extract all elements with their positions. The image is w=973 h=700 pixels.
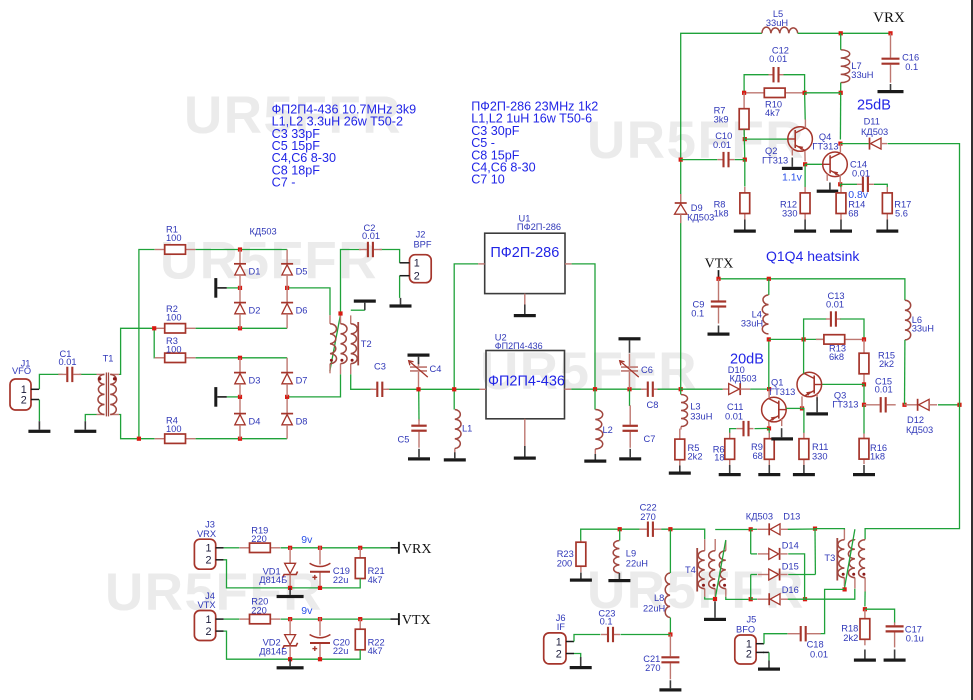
svg-text:КД503: КД503 (746, 512, 773, 522)
svg-text:9v: 9v (301, 534, 313, 546)
svg-text:22u: 22u (333, 575, 349, 585)
svg-text:R23: R23 (557, 549, 574, 559)
junction R4/D4 bottom (238, 437, 242, 441)
page edge line (971, 0, 973, 700)
wire C3 to C4 node (387, 388, 455, 390)
svg-text:ПФ2П-286: ПФ2П-286 (490, 245, 559, 261)
junction R3/D3 top (238, 356, 242, 360)
transistor Q2 (788, 127, 813, 152)
resistor R23 (580, 540, 582, 542)
svg-text:0.01: 0.01 (725, 412, 743, 422)
output tick VRX (398, 542, 400, 554)
svg-text:КД503: КД503 (687, 213, 714, 223)
transformer T4 (696, 548, 698, 592)
svg-text:ГТ313: ГТ313 (769, 387, 795, 397)
wire D13 node to T3 winding1 top (815, 528, 844, 531)
junction VRX/C16 (888, 31, 892, 35)
ground R11 (803, 465, 805, 473)
wire D14 right lead (788, 554, 804, 599)
ground U1 (524, 305, 526, 315)
svg-text:Д814Б: Д814Б (259, 646, 287, 656)
svg-text:100: 100 (166, 344, 182, 354)
junction D13 right (813, 527, 817, 531)
svg-text:D13: D13 (783, 512, 800, 522)
connector J2 BPF (410, 255, 432, 283)
junction R10 right (803, 91, 807, 95)
wire R20 to 9v node (281, 618, 391, 620)
junction VD1 bottom (288, 586, 292, 590)
junction T3 out / R18 (863, 607, 867, 611)
resistor R14 (840, 187, 842, 193)
svg-text:100: 100 (166, 313, 182, 323)
wire J3 pin1 to R19 (224, 547, 240, 549)
transistor Q4 (823, 152, 848, 177)
svg-text:33uH: 33uH (851, 70, 873, 80)
capacitor C18 (788, 633, 800, 635)
wire D13-D14 left link (750, 529, 752, 554)
junction R21 top (358, 546, 362, 550)
svg-text:1: 1 (205, 543, 211, 555)
wire L8 top lead (669, 529, 671, 573)
wire L6 to D12 node (904, 340, 906, 405)
wire node to R11 (802, 408, 804, 433)
svg-text:ГТ313: ГТ313 (812, 142, 838, 152)
ground C9 (718, 326, 720, 333)
svg-text:J2: J2 (416, 230, 426, 240)
junction R13 left node (802, 337, 806, 341)
junction VD2 bottom (288, 657, 292, 661)
svg-text:1: 1 (205, 614, 211, 626)
wire rail lower (865, 405, 959, 539)
junction C20 bottom (318, 657, 322, 661)
transistor Q3 (797, 372, 822, 397)
inductor L3 (680, 427, 682, 430)
svg-text:КД503: КД503 (250, 226, 277, 236)
svg-text:2: 2 (746, 649, 752, 661)
svg-text:0.01: 0.01 (826, 300, 844, 310)
svg-text:ГТ313: ГТ313 (762, 156, 788, 166)
svg-text:1: 1 (414, 258, 420, 270)
diode D16 (757, 598, 769, 600)
wire D11 to rail (888, 144, 960, 405)
wire node to L1 (453, 389, 455, 409)
svg-text:0.1u: 0.1u (906, 634, 924, 644)
diode D1 (239, 250, 241, 264)
capacitor C16 (890, 33, 892, 57)
svg-text:4k7: 4k7 (368, 646, 383, 656)
capacitor C14 (857, 183, 862, 185)
svg-text:VTX: VTX (402, 613, 431, 628)
junction R2/D2 bottom (238, 326, 242, 330)
ground R9 (768, 465, 770, 473)
junction L9 top (618, 527, 622, 531)
wire L7 to Q4 collector node (839, 93, 841, 140)
svg-text:270: 270 (640, 512, 656, 522)
zener diode VD1 (289, 547, 291, 563)
wire Q3 collector up (803, 339, 805, 373)
inductor L7 (841, 50, 850, 83)
resistor R22 (359, 619, 361, 629)
junction D5/D6 mid (285, 286, 289, 290)
wire L5 to VRX (798, 32, 891, 34)
wire T3 diagonal link (845, 529, 855, 587)
svg-text:C8: C8 (647, 400, 659, 410)
junction Q2 emitter node (803, 162, 807, 166)
wire T2 diagonal link (330, 315, 341, 372)
svg-text:D9: D9 (691, 203, 703, 213)
diode D9 (680, 194, 682, 203)
svg-text:2k2: 2k2 (879, 359, 894, 369)
capacitor C15 (864, 404, 880, 406)
ground Q2 case (791, 158, 793, 167)
filter block U1 fill (485, 233, 565, 293)
svg-text:ГТ313: ГТ313 (832, 400, 858, 410)
resistor R5 (679, 429, 681, 440)
svg-text:100: 100 (166, 233, 182, 243)
junction Q3 base node (862, 382, 866, 386)
junction D13 left (749, 527, 753, 531)
wire R3 to D3/D7 top row (196, 357, 288, 359)
wire node to R14 (839, 184, 842, 187)
svg-text:330: 330 (812, 452, 828, 462)
svg-text:UR5FFR: UR5FFR (160, 232, 378, 291)
ground Q1 case (781, 428, 783, 437)
svg-text:КД503: КД503 (906, 425, 933, 435)
svg-text:33uH: 33uH (690, 412, 712, 422)
wire T2 winding3 top to ground (351, 309, 365, 311)
connector J3 VRX (194, 539, 215, 569)
ground R6 (729, 465, 731, 473)
resistor R8 (744, 187, 746, 193)
svg-text:T2: T2 (361, 339, 372, 349)
capacitor C17 (894, 622, 896, 625)
junction D1/D2 mid (238, 286, 242, 290)
junction R4 left node (137, 437, 141, 441)
wire Q2 emitter to node (804, 151, 806, 162)
junction L8/C23/C21 (668, 632, 672, 636)
svg-text:D16: D16 (782, 585, 799, 595)
resistor R17 (886, 187, 888, 193)
ground L1 (454, 452, 456, 458)
output tick VTX (398, 613, 400, 625)
junction L3 node (679, 387, 683, 391)
svg-text:2: 2 (21, 394, 27, 406)
svg-text:2: 2 (556, 648, 562, 660)
ground Q4 case (829, 183, 831, 190)
ground J2 pin2 (400, 298, 402, 305)
svg-text:D11: D11 (864, 117, 880, 127)
junction C19 bottom (318, 586, 322, 590)
ground C21 (669, 680, 671, 688)
svg-text:22uH: 22uH (626, 559, 648, 569)
wire J4 pin2 rail (224, 631, 361, 659)
transistor Q1 (762, 397, 787, 422)
wire C14 to R17 (874, 184, 887, 187)
connector J5 BFO (735, 635, 756, 664)
wire J5 pin1 to C18 (764, 634, 788, 644)
resistor R19 (240, 547, 250, 549)
svg-text:1k8: 1k8 (870, 452, 885, 462)
wire C13 right loop (840, 319, 864, 339)
wire J2 pin2 to ground (399, 276, 401, 298)
junction R10 left (742, 91, 746, 95)
wire C2 to J2 pin1 (380, 250, 400, 263)
wire D13 left stub (751, 528, 757, 530)
VTX tick (718, 270, 720, 277)
wire D12 to rail (938, 404, 960, 406)
svg-text:D3: D3 (249, 375, 261, 385)
ground J5 pin2 (768, 661, 770, 668)
svg-text:D4: D4 (249, 416, 261, 426)
wire J1 pin2 to ground (38, 400, 40, 422)
wire C12 right loop (784, 75, 805, 93)
transformer T2 (329, 315, 331, 324)
wire C12 left loop (744, 75, 768, 93)
junction Q4 collector/D11 (838, 142, 842, 146)
wire R10 to L7 bottom (805, 92, 841, 94)
junction D3/D4 mid (238, 395, 242, 399)
resistor R21 (359, 548, 361, 558)
svg-text:0.01: 0.01 (713, 140, 731, 150)
junction C10 tap (679, 158, 683, 162)
wire T4 winding1 bottom (705, 597, 715, 599)
capacitor C13 (826, 318, 830, 320)
junction Q2 base (743, 137, 747, 141)
wire J5 pin2 to ground (768, 652, 770, 660)
svg-text:2: 2 (205, 555, 211, 567)
junction C15/R16 node (862, 403, 866, 407)
junction Q4 emitter node (838, 182, 842, 186)
svg-text:0.01: 0.01 (769, 54, 787, 64)
svg-text:T1: T1 (103, 353, 114, 363)
svg-text:Q4: Q4 (819, 132, 831, 142)
diode D15 (758, 574, 769, 576)
svg-text:C6: C6 (641, 365, 653, 375)
wire C1 to T1 primary (79, 373, 96, 375)
junction C4 bottom node (416, 387, 420, 391)
svg-text:6k8: 6k8 (829, 352, 844, 362)
junction D10/Q1 base node (767, 387, 771, 391)
resistor R2 (155, 327, 165, 329)
ground R23 (580, 573, 582, 579)
wire T4 winding2 top (715, 529, 751, 531)
wire T4 winding3 bottom (726, 597, 749, 600)
svg-text:VFO: VFO (12, 366, 31, 376)
wire C7 drop (629, 389, 631, 406)
wire J6 pin2 to ground (574, 654, 581, 658)
svg-text:BPF: BPF (413, 240, 431, 250)
capacitor C9 (718, 279, 720, 301)
ground C6 top (629, 340, 631, 352)
inductor L2 (594, 449, 596, 454)
svg-text:L3: L3 (690, 402, 700, 412)
wire R4 to D4/D8 bottom row (196, 438, 288, 440)
svg-text:3k9: 3k9 (714, 115, 729, 125)
svg-text:ПФ2П-286: ПФ2П-286 (517, 222, 561, 232)
junction D7/D8 mid (285, 395, 289, 399)
wire T2 center tap to C2 (341, 250, 362, 314)
resistor R16 (863, 434, 865, 439)
ground R16 (863, 465, 865, 473)
svg-text:20dB: 20dB (730, 352, 764, 368)
svg-text:ФП2П4-436: ФП2П4-436 (495, 341, 543, 351)
resistor R7 (743, 93, 745, 109)
svg-text:C18: C18 (807, 640, 824, 650)
wire U2 output row (571, 388, 643, 390)
wire node to Q4 base (805, 163, 823, 165)
svg-text:D2: D2 (249, 305, 261, 315)
connector J6 IF (544, 633, 566, 664)
wire J1 pin1 to C1 (39, 374, 62, 389)
capacitor C8 (641, 388, 647, 390)
svg-text:Д814Б: Д814Б (259, 575, 287, 585)
svg-text:33uH: 33uH (741, 318, 763, 328)
wire C8 to L3 node (658, 388, 681, 390)
diode D10 (723, 388, 729, 390)
wire Q3 base to R15 (822, 384, 864, 404)
ground J6 pin2 (580, 657, 582, 666)
wire U1 output (572, 264, 595, 389)
wire C4 node to C5 (418, 389, 420, 420)
wire Q3 emitter drop (801, 396, 803, 408)
resistor R3 (155, 357, 165, 359)
resistor R10 (744, 92, 764, 94)
svg-text:0.01: 0.01 (59, 357, 77, 367)
inductor L6 (905, 300, 911, 340)
svg-text:22u: 22u (333, 646, 349, 656)
capacitor C22 (639, 528, 647, 530)
junction C20 top (318, 617, 322, 621)
wire R2 to D2/D6 bottom row (196, 327, 288, 329)
wire T3 node jog to C18 (820, 589, 845, 633)
wire L3 top (680, 389, 682, 394)
capacitor C12 (769, 74, 773, 76)
inductor L4 (762, 295, 768, 334)
diode D4 (239, 399, 241, 414)
resistor R9 (768, 433, 770, 439)
wire D14 left stub (751, 553, 757, 555)
capacitor C5 (418, 419, 420, 425)
diode D6 (286, 288, 288, 303)
ground L2 (594, 454, 596, 460)
svg-text:C4: C4 (430, 364, 442, 374)
wire J6 pin1 to C23 (574, 635, 600, 642)
svg-text:D6: D6 (296, 305, 308, 315)
capacitor C6 variable (629, 354, 631, 367)
ground L9 (618, 573, 620, 579)
wire D15 right lead (788, 574, 815, 576)
zener diode VD2 (289, 619, 291, 635)
ground R8 (744, 220, 746, 230)
junction L4 bottom node (767, 337, 771, 341)
svg-text:0.01: 0.01 (810, 650, 828, 660)
wire L4 node down to D10 node (768, 339, 770, 389)
capacitor C23 (601, 634, 607, 636)
svg-text:33uH: 33uH (912, 324, 934, 334)
ground C16 (890, 84, 892, 90)
wire ring1 mid to T2 winding1 top (287, 288, 330, 315)
svg-text:68: 68 (753, 451, 763, 461)
diode D2 (239, 288, 241, 303)
wire T1 primary bottom to ground (85, 415, 96, 422)
wire D16 left stub (751, 598, 757, 600)
ground R14 (840, 220, 842, 230)
connector J4 VTX (194, 611, 215, 641)
wire Q1 emitter to R9 (768, 428, 770, 433)
wire Q4 base drop (804, 93, 807, 120)
inductor L9 (613, 541, 619, 574)
ground C17 (894, 650, 896, 659)
svg-text:C5: C5 (398, 435, 410, 445)
resistor R11 (803, 433, 805, 439)
capacitor C19 electrolytic (319, 546, 321, 564)
svg-text:КД503: КД503 (730, 374, 757, 384)
svg-text:0.01: 0.01 (362, 231, 380, 241)
svg-text:25dB: 25dB (857, 98, 891, 114)
connector J1 VFO (10, 379, 31, 410)
diode D3 (239, 358, 241, 373)
ground VTX rail (289, 659, 291, 666)
svg-text:R11: R11 (812, 442, 828, 452)
wire node to C14 (840, 183, 857, 185)
svg-text:0.01: 0.01 (875, 385, 893, 395)
inductor L5 (762, 27, 798, 33)
svg-text:0.1: 0.1 (691, 309, 704, 319)
diode D5 (286, 250, 288, 264)
wire R7 to base node (743, 129, 746, 159)
svg-text:1k8: 1k8 (714, 209, 729, 219)
junction L4 top (767, 277, 771, 281)
svg-text:T3: T3 (824, 553, 835, 563)
svg-text:100: 100 (166, 424, 182, 434)
junction R2 left (152, 326, 156, 330)
svg-text:22uH: 22uH (643, 604, 665, 614)
svg-text:0.8v: 0.8v (848, 189, 869, 201)
capacitor C1 (58, 373, 66, 375)
resistor R6 (729, 433, 731, 439)
ground C7 (629, 449, 631, 458)
junction Q1 base / Q3 emitter (800, 406, 804, 410)
svg-text:L8: L8 (654, 593, 664, 603)
wire T3 winding3 bottom (864, 592, 866, 607)
capacitor C7 (629, 405, 631, 425)
svg-text:1.1v: 1.1v (782, 172, 803, 184)
capacitor C4 variable (418, 362, 420, 366)
svg-text:D7: D7 (296, 375, 308, 385)
wire Q2 collector lead (804, 120, 806, 129)
junction L1 node (452, 387, 456, 391)
junction C6/C7 node (627, 387, 631, 391)
svg-text:C3: C3 (374, 362, 386, 372)
svg-text:220: 220 (251, 605, 267, 615)
svg-text:D1: D1 (249, 267, 261, 277)
wire node to U2 input (454, 388, 479, 390)
ground ring1 mid (214, 278, 217, 298)
junction VD1 top (288, 546, 292, 550)
junction R13 right node (862, 337, 866, 341)
svg-text:0.1: 0.1 (905, 62, 918, 72)
svg-text:C11: C11 (727, 402, 743, 412)
wire L8 bottom lead (669, 618, 671, 635)
wire T2 winding3 bottom to C3 (351, 374, 373, 389)
filter U1 block (485, 233, 565, 293)
capacitor C10 (718, 159, 723, 161)
ground J1 pin2 (38, 421, 40, 430)
wire L2 top (594, 389, 596, 409)
svg-text:L9: L9 (626, 549, 636, 559)
wire C11 left to R6 (730, 429, 737, 433)
junction C19 top (318, 546, 322, 550)
